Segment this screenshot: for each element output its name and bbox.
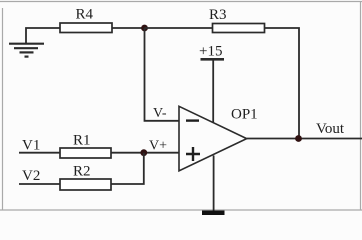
- resistor R2: [60, 179, 111, 190]
- wire node A to V- input: [145, 28, 180, 121]
- output node junction dot: [295, 135, 302, 142]
- ground: [9, 44, 44, 57]
- wire R2 up to V+ node: [111, 153, 144, 184]
- minus sign inside op-amp: [186, 119, 199, 121]
- svg-text:R2: R2: [73, 164, 91, 180]
- plus sign inside op-amp: [186, 147, 200, 161]
- wire V2 to R2: [19, 183, 60, 185]
- wire V1 to R1: [19, 152, 60, 154]
- node A junction dot: [141, 25, 148, 32]
- wire node A to R3: [145, 27, 213, 29]
- wire op-amp negative supply to bottom bar: [213, 156, 215, 212]
- svg-text:+15: +15: [199, 44, 222, 60]
- svg-text:R4: R4: [76, 7, 94, 23]
- resistor R4: [60, 23, 112, 33]
- V+ node junction dot: [140, 149, 147, 156]
- op-amp U1 triangle: [179, 106, 247, 171]
- wire R4 to node A: [112, 27, 145, 29]
- negative supply bar: [202, 210, 225, 215]
- wire ground to R4: [26, 28, 60, 44]
- svg-text:R1: R1: [73, 133, 91, 149]
- svg-text:V1: V1: [22, 138, 40, 154]
- svg-text:V+: V+: [149, 139, 167, 154]
- svg-text:OP1: OP1: [231, 107, 258, 123]
- svg-text:V-: V-: [153, 106, 167, 121]
- svg-text:V2: V2: [22, 168, 40, 184]
- svg-text:Vout: Vout: [316, 121, 345, 137]
- resistor R1: [60, 148, 111, 158]
- wire +15 to op-amp: [212, 61, 214, 124]
- resistor R3: [213, 24, 265, 33]
- wire R3 to output node: [265, 28, 300, 139]
- wire R1 to V+ node: [111, 152, 179, 154]
- output wire to Vout: [247, 138, 362, 140]
- +15 supply bar: [201, 58, 225, 61]
- svg-text:R3: R3: [209, 7, 227, 23]
